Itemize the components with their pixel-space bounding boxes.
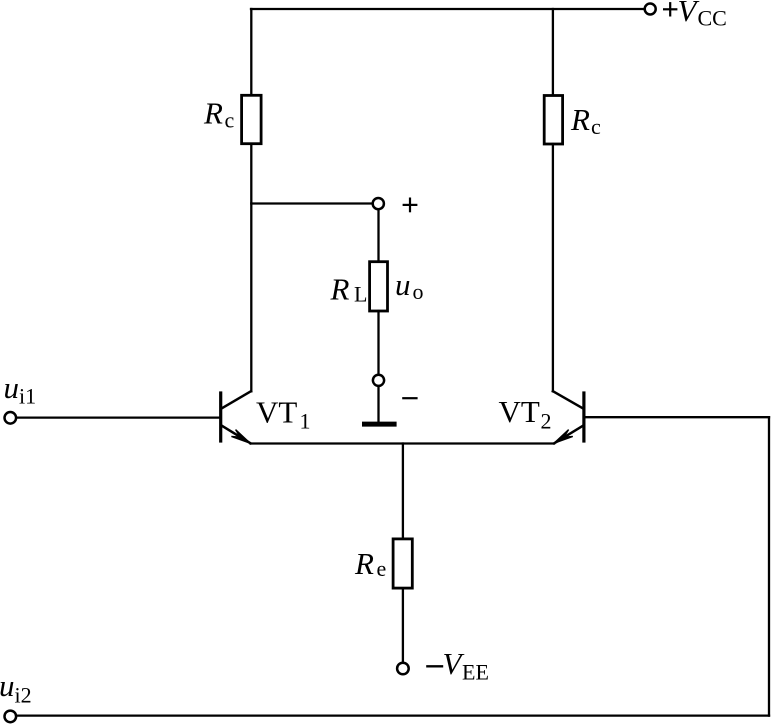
svg-text:2: 2 <box>541 409 552 434</box>
svg-text:R: R <box>203 96 223 131</box>
svg-text:o: o <box>413 279 424 304</box>
svg-text:R: R <box>570 102 590 137</box>
svg-text:1: 1 <box>300 409 311 434</box>
svg-text:VT: VT <box>499 394 540 429</box>
svg-text:u: u <box>4 370 20 405</box>
svg-text:L: L <box>354 282 367 307</box>
svg-text:CC: CC <box>698 5 727 30</box>
svg-text:u: u <box>395 267 411 302</box>
svg-text:c: c <box>591 114 601 139</box>
svg-text:i2: i2 <box>15 683 32 708</box>
svg-text:u: u <box>0 668 15 703</box>
svg-text:c: c <box>225 108 235 133</box>
svg-text:i1: i1 <box>19 384 36 409</box>
svg-text:VT: VT <box>256 395 297 430</box>
svg-text:V: V <box>678 0 700 28</box>
svg-text:R: R <box>354 546 374 581</box>
svg-text:e: e <box>377 556 387 581</box>
svg-text:R: R <box>330 272 350 307</box>
svg-text:EE: EE <box>462 660 489 685</box>
